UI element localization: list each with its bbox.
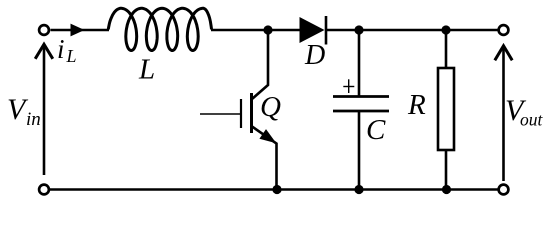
- capacitor polarity plus sign: [343, 79, 354, 93]
- wire diode to output: [327, 29, 499, 32]
- wire inductor to diode: [211, 29, 300, 32]
- transistor Q gate lead: [200, 113, 240, 115]
- terminal output bottom: [499, 185, 509, 195]
- svg-text:Q: Q: [260, 91, 281, 123]
- bottom rail wire: [49, 188, 500, 191]
- svg-text:i: i: [57, 34, 65, 64]
- transistor Q gate bar: [240, 99, 242, 128]
- wire input to inductor: [51, 29, 110, 32]
- diode D cathode bar: [325, 16, 328, 45]
- capacitor C bottom lead: [358, 111, 361, 190]
- current arrow iL: [71, 24, 85, 37]
- capacitor C bottom plate: [333, 110, 389, 113]
- resistor R top lead: [445, 30, 448, 68]
- node resistor bottom junction: [442, 185, 451, 194]
- Vout voltage arrow: [502, 47, 505, 182]
- capacitor C top lead: [358, 30, 361, 96]
- svg-text:in: in: [26, 109, 41, 130]
- node collector junction: [263, 25, 272, 34]
- terminal input bottom: [39, 185, 49, 195]
- inductor L: [108, 8, 211, 50]
- resistor R bottom lead: [445, 150, 448, 190]
- node capacitor top junction: [354, 25, 363, 34]
- svg-text:L: L: [66, 46, 77, 66]
- transistor Q emitter arrow: [259, 129, 276, 143]
- node resistor top junction: [441, 25, 450, 34]
- svg-text:D: D: [304, 40, 325, 71]
- svg-text:out: out: [520, 110, 544, 130]
- svg-text:C: C: [366, 114, 386, 146]
- node capacitor bottom junction: [354, 185, 363, 194]
- terminal input top: [39, 25, 49, 35]
- node emitter bottom junction: [272, 185, 281, 194]
- capacitor C top plate: [333, 95, 389, 98]
- resistor R body: [438, 68, 454, 150]
- terminal output top: [499, 25, 509, 35]
- transistor Q channel bar: [250, 93, 253, 133]
- Vin voltage arrow: [43, 45, 46, 175]
- diode D: [300, 17, 325, 43]
- svg-text:L: L: [138, 54, 155, 86]
- transistor Q collector wire: [252, 34, 268, 99]
- transistor Q emitter wire: [252, 127, 277, 190]
- svg-text:R: R: [407, 89, 426, 121]
